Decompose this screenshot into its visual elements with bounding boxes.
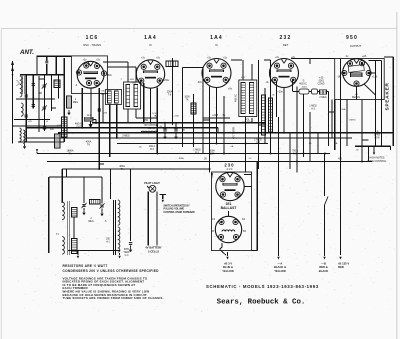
svg-text:50A: 50A	[342, 108, 346, 111]
wire speaker vertical x375	[375, 61, 377, 147]
wire front-end low rail	[13, 125, 63, 127]
trimmer condenser below V1	[84, 115, 93, 121]
svg-text:1 MEG: 1 MEG	[309, 105, 317, 108]
wire V5 left vertical x340	[340, 59, 342, 256]
label HIGH NOTES TONE CONTROL	[367, 157, 387, 163]
wire mid drop x258	[258, 60, 260, 169]
label 200A R-2	[149, 145, 156, 151]
capacitor C12 under V1	[98, 108, 100, 111]
svg-text:Sears, Roebuck & Co.: Sears, Roebuck & Co.	[217, 299, 306, 307]
svg-text:PILOT LIGHT: PILOT LIGHT	[144, 182, 160, 185]
label V3 type 1A4	[210, 35, 223, 41]
wire top-left rail y56	[37, 55, 72, 57]
label .02 right	[355, 150, 359, 152]
label .05 y158	[203, 158, 207, 161]
wire -B lead	[323, 154, 328, 260]
wire V3 top link	[231, 59, 242, 61]
wire bus y169	[62, 168, 211, 170]
wire front-end vertical x26	[25, 75, 27, 142]
svg-text:TA: TA	[87, 144, 90, 147]
svg-text:200A: 200A	[167, 91, 173, 94]
wire detector link x310	[291, 59, 335, 65]
wire rail drop x56	[55, 56, 57, 74]
coupling coil between V2 V3	[166, 61, 178, 67]
wire V6 right link	[244, 175, 252, 187]
wire tick T2	[251, 118, 253, 123]
wire V3 cathode drop	[223, 96, 225, 154]
switch S1 arm	[160, 195, 167, 203]
label V5 function OUTPUT	[350, 44, 362, 48]
svg-text:.0001: .0001	[301, 87, 307, 89]
label -B RED BLACK	[319, 261, 328, 273]
wire bus y153.5	[37, 153, 330, 155]
label .0001 COND	[318, 78, 325, 86]
label +B 135V RED	[338, 261, 349, 269]
tube V7 ballast socket	[215, 216, 241, 242]
svg-text:1C6: 1C6	[86, 35, 99, 41]
page border faint left	[0, 29, 2, 339]
wire front-end bottom rail	[18, 141, 64, 143]
svg-text:465 KC: 465 KC	[299, 84, 307, 86]
svg-text:SCHEMATIC - MODELS 1923-1933-: SCHEMATIC - MODELS 1923-1933-863-1993	[206, 284, 319, 289]
wire speaker bottom stub	[389, 146, 391, 150]
svg-text:465 KC: 465 KC	[235, 94, 238, 102]
detector grid condenser	[299, 87, 309, 95]
svg-text:PULLING VOLUME: PULLING VOLUME	[164, 209, 185, 211]
page border faint right	[396, 12, 398, 339]
wire +B135 lead lower	[339, 257, 341, 260]
wire bus y143.5	[117, 143, 268, 145]
coil L30 mid-left	[57, 117, 67, 137]
resistor R1 left of V1	[67, 96, 72, 115]
svg-text:ANT.: ANT.	[19, 49, 34, 56]
svg-text:+20v: +20v	[277, 91, 283, 94]
wire V2 pin drop left	[143, 83, 145, 123]
label BTR TRAP	[123, 248, 130, 257]
wire mid drop x218	[217, 128, 219, 133]
wire mid drop x270	[270, 60, 272, 154]
wire V2-V3 coupling	[182, 67, 203, 69]
label 260A y154	[209, 150, 215, 156]
wire front-end top rail	[20, 74, 64, 76]
bus y153.5 left terminal arrow	[36, 149, 38, 153]
svg-text:—A: —A	[278, 261, 283, 265]
wave trap coil	[55, 134, 61, 148]
wire front-end vertical x33	[32, 75, 34, 109]
volume control resistor a	[262, 95, 266, 135]
label V1 pin +2v left	[82, 59, 87, 62]
oscillator transformer winding 2	[115, 91, 119, 103]
label V5 pin 2v left	[346, 55, 349, 58]
svg-text:-30v: -30v	[132, 82, 138, 85]
svg-text:4V BATTERY: 4V BATTERY	[145, 246, 162, 250]
label 12 x250	[248, 158, 252, 160]
wire x182 tall	[181, 68, 183, 147]
label V2 pin -30v	[132, 82, 138, 85]
IFT1 secondary winding	[134, 85, 138, 107]
svg-text:YELLOW: YELLOW	[274, 269, 286, 273]
label V5 pin +2A right	[362, 55, 367, 58]
svg-text:2 MEG: 2 MEG	[319, 97, 326, 99]
wire rail drop x37	[36, 56, 38, 74]
label V2 function IF	[149, 43, 153, 47]
label 480A TA	[119, 165, 125, 171]
wire mid drop x290	[289, 133, 291, 169]
wire front-end vertical x39	[38, 76, 40, 132]
svg-text:SPEAKER: SPEAKER	[385, 82, 391, 110]
ground below V1 trimmer	[89, 120, 96, 129]
label KC near IFT2	[241, 77, 245, 79]
capacitor C8 with ground	[163, 123, 166, 140]
wire V1-V2 coupling top	[103, 62, 136, 67]
tube V2 1A4 socket	[136, 60, 164, 88]
battery cell line right	[156, 192, 158, 246]
svg-text:BLACK: BLACK	[319, 269, 328, 273]
label 250 under V1	[104, 113, 108, 115]
svg-text:TA: TA	[69, 153, 72, 156]
output transformer T4 primary	[118, 200, 120, 225]
svg-text:465A: 465A	[178, 157, 184, 160]
label V1 pin +50v	[106, 74, 112, 77]
svg-text:1000: 1000	[184, 96, 190, 99]
volume control resistor b	[269, 98, 273, 132]
note voltage readings block	[63, 276, 164, 300]
wire mid drop x310	[309, 112, 311, 162]
capacitor C4 400KC	[43, 127, 55, 131]
wire IFT2 top leads	[243, 60, 252, 80]
resistor R7 LL	[72, 239, 78, 254]
tube V5 950 socket	[342, 59, 372, 87]
label 1 MEG A-3	[309, 105, 317, 111]
V5 outer box	[335, 59, 385, 100]
label switch note	[164, 205, 196, 214]
wire ballast bottom lead	[220, 243, 223, 250]
svg-text:3 MEG: 3 MEG	[122, 135, 130, 138]
wire V2 pin drop right	[150, 88, 152, 123]
wire ballast top lead	[228, 211, 230, 216]
svg-text:+135: +135	[372, 76, 378, 79]
svg-text:TA: TA	[121, 168, 124, 171]
svg-text:DET: DET	[210, 154, 215, 156]
label 05 x140	[138, 147, 142, 149]
svg-text:+50v: +50v	[106, 74, 112, 77]
wire LL vertical x74 low	[73, 217, 75, 239]
wire detector row	[293, 91, 329, 93]
label 1886A TA	[67, 150, 74, 156]
svg-text:1A4: 1A4	[210, 35, 223, 41]
label 2 MEG	[319, 97, 326, 99]
wire V4 pin drop left	[276, 81, 278, 117]
label V4 pin +2v left	[275, 56, 280, 59]
label 7.5KC	[101, 91, 105, 96]
resistor R2 x193	[191, 103, 196, 114]
label V6 type 230	[224, 162, 234, 167]
label 425 left	[28, 121, 32, 123]
svg-text:BLUE &: BLUE &	[223, 265, 233, 269]
wire V4 to detector row	[292, 81, 294, 91]
svg-text:SWITCH OPERATED BY: SWITCH OPERATED BY	[164, 205, 191, 208]
capacitor LL right	[129, 243, 132, 253]
wire V5 pin link right	[370, 72, 376, 74]
svg-text:RESISTORS ARE ½ WATT: RESISTORS ARE ½ WATT	[63, 264, 108, 268]
label V3 pin +2v right	[223, 57, 228, 60]
label +B reading	[352, 84, 376, 99]
battery cell line left	[147, 192, 149, 246]
label V4 pin -3v	[265, 81, 269, 84]
label 4V battery	[145, 246, 162, 254]
wire mid drop x347	[346, 100, 348, 147]
svg-text:+B: +B	[211, 231, 214, 233]
ground symbol front-end	[23, 144, 26, 149]
capacitor C11 left	[25, 115, 28, 117]
svg-text:TRAP: TRAP	[123, 251, 130, 254]
svg-text:CON: CON	[374, 138, 379, 140]
svg-text:OSC - TRANS: OSC - TRANS	[83, 43, 101, 47]
title schematic models	[206, 284, 319, 289]
wire speaker bottom rail	[355, 145, 390, 147]
svg-text:230: 230	[224, 162, 234, 167]
wire bus y132.8	[58, 132, 393, 134]
wire speaker vertical x393	[392, 57, 394, 146]
wire LL vertical x48	[48, 177, 50, 253]
ballast box outline	[212, 162, 258, 251]
trimmer capacitor C2	[32, 105, 35, 107]
svg-text:COND: COND	[318, 84, 325, 86]
tone control arrow	[373, 146, 375, 155]
svg-text:.0001: .0001	[318, 81, 324, 83]
label V7 pin C4	[212, 219, 246, 221]
RF choke coil	[141, 131, 157, 133]
switch S2 ballast	[220, 250, 227, 256]
antenna label ANT.	[19, 49, 34, 56]
label V4 pin +2v right	[291, 56, 296, 59]
tube V6 230 socket	[216, 172, 244, 200]
pilot light label	[144, 182, 160, 185]
tube V1 1C6 socket	[76, 61, 106, 88]
svg-text:A.V.C: A.V.C	[226, 168, 232, 171]
wire LL vertical x110	[110, 169, 112, 199]
label 460 KC OSC	[75, 123, 83, 129]
label SPEAKER vertical	[385, 82, 391, 110]
label 1000 TA	[184, 96, 190, 102]
wire mid drop x362	[361, 100, 363, 162]
svg-text:OUTPUT: OUTPUT	[350, 44, 362, 48]
label cluster 228 y115	[173, 116, 179, 118]
wire x328 drop	[328, 92, 330, 147]
speck tick b	[259, 124, 266, 126]
svg-text:950: 950	[346, 35, 358, 41]
wire V4 pin drop	[283, 87, 285, 132]
label 250 A-1	[106, 238, 111, 244]
wire IFT1 bottom leads	[128, 109, 136, 123]
label 05 x310	[308, 143, 312, 145]
antenna lead-in	[11, 61, 14, 144]
label taper vertical	[233, 127, 236, 139]
label 1 MEG right	[349, 120, 356, 122]
wire front-end rail y119.6	[14, 119, 50, 121]
wire bus y161.5	[47, 161, 372, 163]
label A left	[46, 120, 48, 123]
wire speaker top rail	[369, 60, 382, 62]
svg-text:TA: TA	[186, 99, 189, 102]
wire pilot stub left	[147, 186, 149, 188]
wire V5 box left extension	[334, 100, 336, 151]
svg-text:YELLOW: YELLOW	[222, 269, 234, 273]
svg-text:RED &: RED &	[319, 265, 327, 269]
label V4 pin +20v	[277, 91, 283, 94]
wire x64 tall	[63, 58, 65, 142]
label 3MEG on y133	[122, 135, 130, 138]
svg-text:465 KC: 465 KC	[147, 128, 155, 130]
wire front-end mid rail	[16, 98, 55, 100]
label 700A RB	[292, 150, 299, 156]
label V7 pin B4	[211, 231, 247, 233]
label +40A left	[57, 124, 61, 127]
note resistors	[63, 264, 108, 268]
antenna coil L1 primary	[20, 76, 22, 97]
wire front-end tick a	[39, 78, 45, 80]
tuning gang C3B	[42, 105, 47, 110]
wire bus y122.7	[92, 122, 265, 124]
svg-text:+22.5: +22.5	[212, 114, 219, 117]
label 22.5V	[203, 114, 230, 118]
wire V3 pin drop	[216, 87, 218, 143]
label VOL CONTROL	[242, 119, 254, 125]
svg-text:480A: 480A	[119, 165, 125, 168]
svg-text:1 MEG: 1 MEG	[349, 120, 356, 122]
svg-text:+2A: +2A	[362, 55, 367, 58]
oscillator transformer box	[106, 90, 122, 105]
wire mid drop x203	[202, 68, 204, 154]
svg-text:1 MEG: 1 MEG	[193, 149, 201, 152]
svg-text:—B: —B	[321, 261, 326, 265]
wire LL bottom rail	[68, 250, 120, 252]
capacitor C9 with ground	[174, 123, 177, 140]
svg-text:I F: I F	[149, 43, 153, 47]
svg-text:MEG: MEG	[73, 102, 78, 104]
label -A BLACK YELLOW	[274, 261, 286, 273]
tube V4 232 socket	[270, 59, 299, 88]
wire V4 top link	[264, 59, 271, 61]
svg-text:MEG: MEG	[88, 221, 93, 223]
capacitor on rail drop	[45, 56, 48, 74]
label V6 function AVC	[226, 168, 232, 171]
wire mid drop x368	[368, 146, 370, 161]
audio transformer T3 secondary	[62, 236, 64, 254]
wire IFT1 top leads	[128, 62, 136, 82]
svg-text:TUBE SOCKETS ARE VIEWED FROM U: TUBE SOCKETS ARE VIEWED FROM UNDER SIDE …	[63, 296, 164, 300]
svg-text:DET: DET	[283, 43, 289, 47]
label V1 pin +2v right	[96, 59, 101, 62]
output transformer T4 core	[114, 200, 116, 255]
wire LL rail y177	[49, 176, 102, 178]
output transformer T4 secondary	[118, 227, 120, 252]
IFT2 secondary winding	[250, 83, 254, 114]
wire speaker vertical x381	[380, 61, 382, 147]
label +400 TA	[86, 141, 92, 147]
label 2MEG LL	[88, 217, 93, 223]
tuning gang C3A	[42, 83, 47, 88]
svg-text:+50v: +50v	[164, 79, 170, 82]
wire x303 drop	[303, 94, 305, 157]
pilot lamp	[149, 185, 156, 192]
wire V1 pin drop	[90, 88, 92, 119]
svg-text:RED: RED	[338, 265, 344, 269]
label 200A T-6	[167, 91, 173, 97]
label V5 pin -16	[337, 76, 341, 79]
wire LL top rail	[61, 169, 63, 203]
wire bus y137.9	[26, 137, 352, 139]
wire x193 mid	[193, 94, 195, 147]
svg-text:1E1: 1E1	[225, 202, 231, 206]
trimmer capacitor C1	[17, 80, 36, 86]
label V2 type 1A4	[144, 35, 157, 41]
svg-text:2 CELLS: 2 CELLS	[148, 249, 159, 253]
wire mid drop x265	[264, 88, 266, 144]
label V1 type 1C6	[86, 35, 99, 41]
label 50A right	[342, 108, 346, 111]
title Sears Roebuck	[217, 299, 306, 307]
wire V2 plate drop x172	[172, 58, 174, 125]
label V7 BALLAST	[221, 206, 238, 210]
label +B 3V BLUE YELLOW	[222, 261, 234, 273]
label V6 pin 0 left	[212, 176, 214, 179]
svg-text:790 A: 790 A	[292, 150, 299, 153]
label V5 type 950	[346, 35, 358, 41]
label V4 type 232	[280, 35, 292, 41]
resistor R8 horizontal	[90, 200, 101, 205]
antenna coil L2 bottom	[20, 128, 25, 144]
wire to +B3V arrow	[226, 252, 228, 260]
oscillator transformer winding 1	[108, 91, 112, 103]
svg-text:+B 3 V: +B 3 V	[224, 261, 232, 265]
svg-text:200 A: 200 A	[149, 145, 156, 148]
note condensers	[63, 269, 160, 273]
label -.5 465KC	[299, 80, 307, 86]
svg-text:260A: 260A	[209, 150, 215, 153]
label RF choke	[145, 124, 158, 130]
label V2 pin +2v right	[156, 57, 161, 60]
label 465 near IFT1	[130, 79, 134, 81]
svg-text:CONTROL KNOB FORWARD: CONTROL KNOB FORWARD	[164, 211, 196, 214]
label .05 C9	[182, 130, 186, 132]
label V2 pin +50v	[164, 79, 170, 82]
label V3 pin +5v	[228, 88, 233, 91]
label T1 marker	[56, 233, 59, 236]
wire x103 from shield	[102, 94, 104, 123]
wire mid drop x332	[331, 100, 333, 138]
junction arrow left of V6	[211, 173, 213, 176]
wire V3 grid drop	[209, 87, 211, 173]
page border faint top	[1, 28, 397, 30]
wire x99 tall	[98, 88, 100, 169]
label 465 KC vertical	[235, 94, 238, 102]
speck tick a	[203, 119, 210, 121]
label V1 function OSC-TRANS	[83, 43, 101, 47]
wire LL bottom arrow a	[77, 251, 79, 259]
tube V3 1A4 socket	[202, 59, 231, 88]
V5 plate structure	[348, 65, 364, 77]
svg-text:-30v: -30v	[197, 81, 203, 84]
capacitor C10 left	[25, 95, 28, 97]
svg-text:SPKR: SPKR	[374, 135, 381, 137]
svg-text:+.05: +.05	[319, 78, 324, 80]
IF transformer T1 box	[124, 82, 141, 109]
label V3 pin +2v left	[207, 57, 212, 60]
wire V2 grid drop	[156, 88, 158, 154]
svg-text:R-B: R-B	[293, 154, 297, 156]
wire -A lead	[277, 117, 279, 260]
